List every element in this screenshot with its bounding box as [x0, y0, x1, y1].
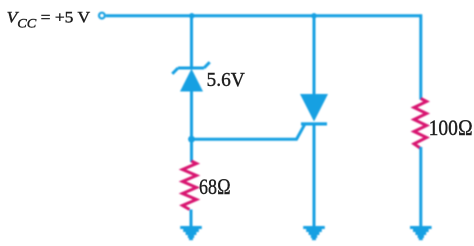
- wire resistor R1 to ground: [190, 210, 193, 228]
- wire gate node to resistor R1: [190, 139, 193, 162]
- ground (middle): [303, 226, 325, 240]
- SCR Q1 cathode bar: [301, 122, 327, 125]
- node junction top-left: [189, 13, 195, 19]
- zener diode D1 5.6V (cathode bar with bent ends): [172, 62, 209, 74]
- wire SCR cathode to ground: [313, 126, 316, 228]
- wire left branch upper (bus to zener): [190, 16, 193, 69]
- wire top horizontal bus: [106, 14, 422, 17]
- resistor R1 68 ohm zigzag: [183, 161, 197, 210]
- wire middle branch upper (bus to SCR anode): [313, 16, 316, 95]
- wire right branch upper (bus corner to resistor R2): [419, 14, 422, 99]
- zener diode D1 anode triangle: [180, 69, 203, 92]
- svg-text:68Ω: 68Ω: [199, 174, 231, 199]
- ground (right): [410, 226, 432, 240]
- ground (left): [180, 226, 202, 240]
- terminal (input circle): [99, 13, 105, 19]
- svg-text:5.6V: 5.6V: [207, 69, 246, 91]
- node junction top-middle: [311, 13, 317, 19]
- svg-text:VCC = +5 V: VCC = +5 V: [7, 9, 91, 30]
- SCR Q1 anode triangle: [300, 94, 328, 122]
- wire resistor R2 to ground: [419, 147, 422, 227]
- node gate junction: [188, 136, 195, 143]
- wire zener to gate node: [190, 91, 193, 140]
- svg-text:100Ω: 100Ω: [429, 115, 473, 140]
- wire gate (from gate node to SCR gate): [192, 125, 305, 139]
- resistor R2 100 ohm zigzag: [414, 99, 427, 149]
